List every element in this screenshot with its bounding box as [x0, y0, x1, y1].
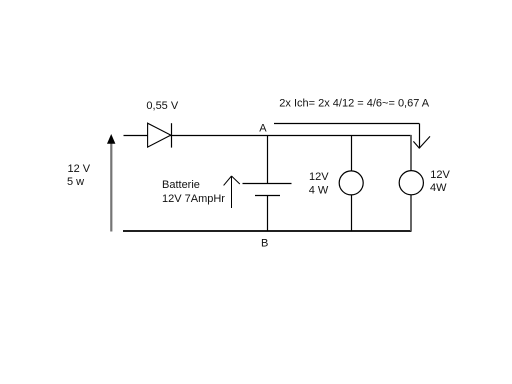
svg-text:12V: 12V	[309, 171, 329, 183]
battery B1 plates	[243, 184, 292, 196]
wire right edge	[410, 135, 412, 231]
node A stub wire down to battery	[267, 135, 269, 184]
svg-text:5 w: 5 w	[67, 176, 84, 188]
wire top (node to node)	[124, 135, 412, 137]
wire bottom B rail	[123, 230, 412, 232]
annotation arrow 12V 5w (left, pointing up)	[107, 134, 115, 232]
svg-text:12V: 12V	[430, 169, 450, 181]
annotation arrow battery (pointing up)	[224, 176, 240, 208]
svg-text:12 V: 12 V	[68, 163, 91, 175]
svg-text:2x Ich= 2x 4/12 = 4/6~= 0,67 A: 2x Ich= 2x 4/12 = 4/6~= 0,67 A	[279, 97, 430, 109]
svg-text:Batterie: Batterie	[162, 179, 200, 191]
svg-text:B: B	[261, 237, 268, 249]
wire battery to bottom rail	[267, 196, 269, 232]
svg-text:A: A	[259, 123, 267, 135]
annotation line for current (top)	[274, 123, 419, 125]
lamp L2 (on right edge wire)	[399, 171, 423, 195]
svg-text:12V 7AmpHr: 12V 7AmpHr	[162, 193, 225, 205]
annotation arrow current (down at right)	[413, 124, 430, 149]
wire lamp1 branch	[351, 135, 353, 231]
svg-text:4W: 4W	[430, 182, 447, 194]
svg-text:0,55 V: 0,55 V	[146, 100, 178, 112]
diode D1	[148, 123, 172, 147]
lamp L1	[339, 171, 363, 195]
svg-text:4 W: 4 W	[309, 184, 329, 196]
